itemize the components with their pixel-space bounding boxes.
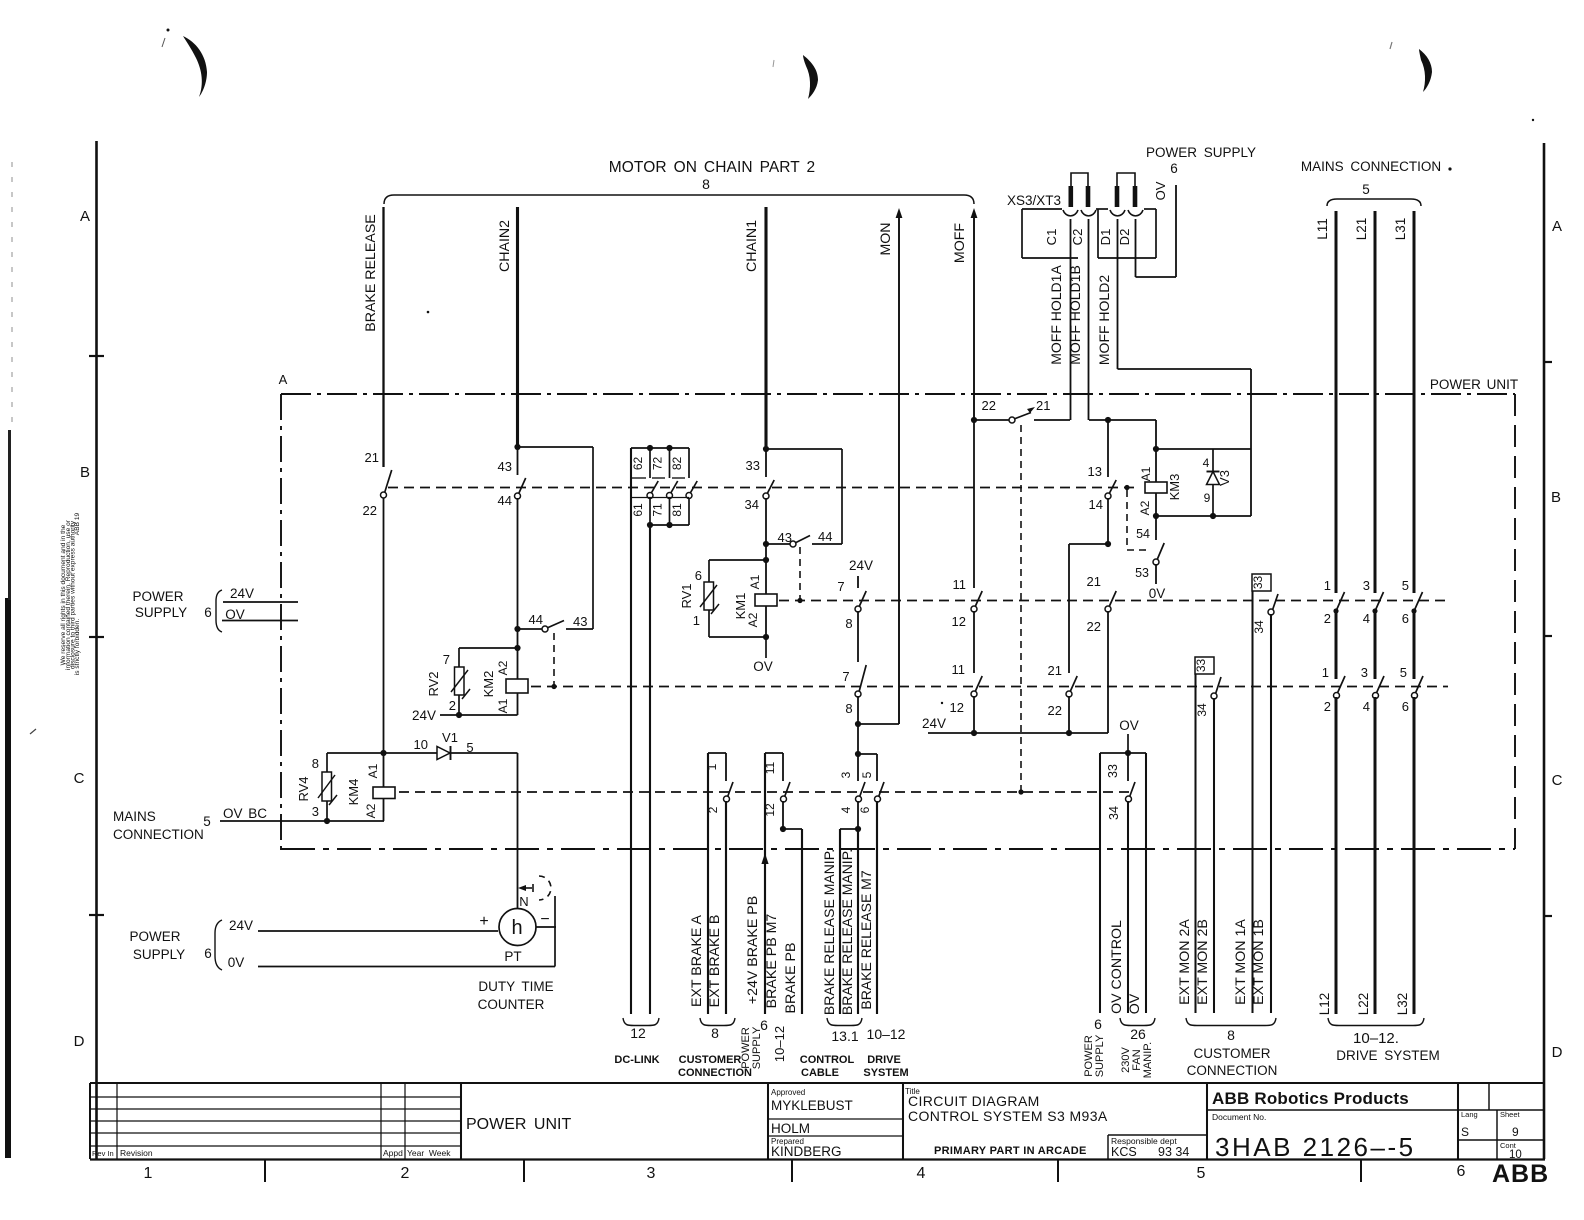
wire dc-link B xyxy=(649,525,651,1014)
svg-text:71: 71 xyxy=(651,503,665,517)
svg-text:POWER: POWER xyxy=(129,929,180,944)
svg-text:Document No.: Document No. xyxy=(1212,1112,1266,1122)
svg-text:81: 81 xyxy=(670,503,684,517)
ext mon 1 box xyxy=(1252,574,1271,591)
svg-text:EXT MON 2B: EXT MON 2B xyxy=(1195,919,1211,1005)
brace control cable xyxy=(827,1018,862,1026)
contact 22-21 moff xyxy=(974,419,1009,421)
svg-text:EXT BRAKE B: EXT BRAKE B xyxy=(707,915,723,1008)
svg-text:Approved: Approved xyxy=(771,1088,805,1097)
svg-text:12: 12 xyxy=(630,1025,646,1041)
svg-text:21: 21 xyxy=(1036,398,1050,413)
svg-text:5: 5 xyxy=(1197,1165,1206,1182)
svg-text:SUPPLY: SUPPLY xyxy=(1094,1034,1106,1077)
svg-text:V1: V1 xyxy=(442,730,458,745)
svg-text:8: 8 xyxy=(312,756,319,771)
svg-text:61: 61 xyxy=(631,503,645,517)
svg-text:43: 43 xyxy=(573,614,587,629)
svg-text:2: 2 xyxy=(449,698,456,713)
bracket mains connection xyxy=(1327,199,1421,206)
scan artifact curl 1 xyxy=(183,36,207,97)
svg-text:8: 8 xyxy=(702,176,710,192)
svg-text:ABB Robotics Products: ABB Robotics Products xyxy=(1212,1089,1409,1108)
scan artifact curl 3 xyxy=(1419,49,1432,92)
wire KM3 top xyxy=(1155,420,1157,482)
svg-text:RV1: RV1 xyxy=(679,583,694,608)
jumper link D1-D2 xyxy=(1117,173,1135,188)
svg-text:KM2: KM2 xyxy=(481,671,496,698)
svg-text:22: 22 xyxy=(982,398,996,413)
frame tick left CD xyxy=(89,914,104,916)
svg-text:MON: MON xyxy=(878,222,894,255)
svg-text:44: 44 xyxy=(818,529,832,544)
svg-text:43: 43 xyxy=(498,459,512,474)
svg-text:A1: A1 xyxy=(748,574,762,589)
ov control box top xyxy=(1100,752,1146,754)
svg-text:ABB: ABB xyxy=(1492,1160,1549,1188)
svg-text:4: 4 xyxy=(917,1165,926,1182)
svg-text:CUSTOMER: CUSTOMER xyxy=(679,1054,742,1066)
svg-text:93 34: 93 34 xyxy=(1158,1145,1189,1159)
svg-text:7: 7 xyxy=(842,669,849,684)
svg-text:+: + xyxy=(479,913,488,930)
svg-text:DRIVE SYSTEM: DRIVE SYSTEM xyxy=(1336,1048,1440,1063)
contact 5-6 xyxy=(876,754,878,781)
wire KM1 top xyxy=(709,559,766,561)
svg-text:SYSTEM: SYSTEM xyxy=(863,1067,908,1079)
brace ext mon 8 xyxy=(1186,1018,1276,1026)
svg-text:CHAIN1: CHAIN1 xyxy=(744,220,760,272)
svg-text:3: 3 xyxy=(1361,665,1368,680)
svg-text:34: 34 xyxy=(1107,806,1121,820)
contact 13-14 xyxy=(1107,420,1109,477)
svg-text:11: 11 xyxy=(953,577,967,592)
svg-text:SUPPLY: SUPPLY xyxy=(133,947,185,962)
wire dc-link A xyxy=(630,448,632,1014)
brace drive system xyxy=(1328,1018,1424,1026)
contact 33-34 ov control xyxy=(1127,753,1129,781)
svg-text:11: 11 xyxy=(952,662,966,677)
svg-text:EXT MON 1B: EXT MON 1B xyxy=(1251,919,1267,1005)
svg-text:L12: L12 xyxy=(1317,993,1332,1016)
svg-text:10–12.: 10–12. xyxy=(1353,1030,1399,1047)
column tick 4-5 xyxy=(1057,1160,1059,1182)
svg-text:24V: 24V xyxy=(849,558,873,573)
mech link 13-14 to 53-54 xyxy=(1124,485,1129,490)
wire +24V brake pb xyxy=(764,753,766,1014)
wire MOFF HOLD1B xyxy=(1088,219,1090,420)
svg-text:A: A xyxy=(1552,218,1562,235)
xs3 box xyxy=(1022,208,1062,210)
svg-text:4: 4 xyxy=(1363,611,1370,626)
svg-text:POWER: POWER xyxy=(132,589,183,604)
bracket power supply lower xyxy=(215,920,222,970)
svg-text:A1: A1 xyxy=(496,698,510,713)
svg-text:4: 4 xyxy=(1203,456,1210,470)
bracket power supply upper xyxy=(216,590,222,632)
svg-text:D2: D2 xyxy=(1117,229,1132,246)
svg-text:8: 8 xyxy=(711,1025,719,1041)
socket D1 xyxy=(1110,210,1125,216)
svg-text:POWER UNIT: POWER UNIT xyxy=(1430,377,1518,392)
svg-text:22: 22 xyxy=(363,503,377,518)
svg-text:8: 8 xyxy=(845,616,852,631)
svg-text:EXT MON 2A: EXT MON 2A xyxy=(1177,919,1193,1005)
svg-text:PRIMARY PART IN ARCADE: PRIMARY PART IN ARCADE xyxy=(934,1145,1087,1157)
frame tick right BC xyxy=(1544,635,1552,637)
wire KM2 top xyxy=(459,647,518,649)
wire 24V lower xyxy=(258,930,498,932)
wire KM2 bottom xyxy=(440,714,518,716)
svg-text:8: 8 xyxy=(1227,1027,1235,1043)
svg-text:OV: OV xyxy=(753,659,773,674)
svg-text:D: D xyxy=(74,1033,85,1050)
svg-text:10: 10 xyxy=(414,737,428,752)
node 44-43 branch xyxy=(514,626,520,632)
svg-text:D1: D1 xyxy=(1098,229,1113,246)
contact 11-12 brake pb xyxy=(782,753,784,781)
node chain2 top loop xyxy=(514,444,520,450)
svg-text:3: 3 xyxy=(839,771,853,778)
svg-text:Revision: Revision xyxy=(120,1148,153,1158)
svg-text:Appd: Appd xyxy=(383,1148,403,1158)
svg-text:KCS: KCS xyxy=(1111,1145,1137,1159)
frame tick left AB xyxy=(89,355,104,357)
contact 1-2 ext brake xyxy=(725,753,727,781)
svg-text:1: 1 xyxy=(705,763,719,770)
svg-text:Year Week: Year Week xyxy=(407,1148,451,1158)
svg-text:44: 44 xyxy=(498,493,512,508)
frame tick left BC xyxy=(89,636,104,638)
svg-text:9: 9 xyxy=(1204,491,1211,505)
svg-text:OV: OV xyxy=(1153,181,1168,200)
socket C1 xyxy=(1063,210,1078,216)
ext brake pair top xyxy=(708,752,726,754)
svg-text:CUSTOMER: CUSTOMER xyxy=(1193,1046,1270,1061)
brace 26 xyxy=(1120,1018,1155,1026)
svg-text:DUTY TIME: DUTY TIME xyxy=(478,979,553,994)
svg-text:62: 62 xyxy=(631,457,645,471)
svg-text:COUNTER: COUNTER xyxy=(478,997,545,1012)
svg-text:A1: A1 xyxy=(366,763,380,778)
svg-text:33: 33 xyxy=(1106,764,1120,778)
svg-text:C1: C1 xyxy=(1044,229,1059,246)
wire MOFF HOLD1A xyxy=(1070,219,1072,420)
svg-text:C2: C2 xyxy=(1070,229,1085,246)
responsible dept cell xyxy=(1108,1134,1207,1136)
svg-text:13: 13 xyxy=(1088,464,1102,479)
frame tick right CD xyxy=(1544,915,1552,917)
svg-text:DC-LINK: DC-LINK xyxy=(614,1054,659,1066)
dc-link label boxes xyxy=(631,477,646,479)
column tick 3-4 xyxy=(791,1160,793,1182)
svg-text:3: 3 xyxy=(312,804,319,819)
svg-text:3HAB 2126–-5: 3HAB 2126–-5 xyxy=(1215,1132,1416,1162)
svg-text:−: − xyxy=(540,911,549,928)
wire MON riser to control cable xyxy=(857,724,859,754)
node MOFF branch xyxy=(971,417,977,423)
svg-text:6: 6 xyxy=(204,605,212,620)
svg-text:12: 12 xyxy=(950,700,964,715)
svg-text:2: 2 xyxy=(401,1165,410,1182)
svg-text:22: 22 xyxy=(1048,703,1062,718)
svg-text:33: 33 xyxy=(746,458,760,473)
svg-text:V3: V3 xyxy=(1217,470,1232,486)
svg-text:2: 2 xyxy=(706,806,720,813)
brace customer connection 8 xyxy=(700,1018,735,1026)
wire MOFF HOLD2 right leg xyxy=(1250,369,1252,516)
svg-text:53: 53 xyxy=(1135,566,1149,580)
counter reset arrow xyxy=(518,885,526,891)
svg-text:21: 21 xyxy=(365,450,379,465)
node KM2 top xyxy=(514,645,520,651)
svg-text:BRAKE RELEASE: BRAKE RELEASE xyxy=(363,214,379,332)
power unit box left xyxy=(280,394,282,850)
socket D2 xyxy=(1128,210,1143,216)
svg-text:54: 54 xyxy=(1136,527,1150,541)
svg-text:MOFF HOLD1B: MOFF HOLD1B xyxy=(1067,265,1083,365)
svg-text:Sheet: Sheet xyxy=(1500,1110,1521,1119)
wire C2 corner xyxy=(1089,419,1156,421)
wire 24V upper xyxy=(223,601,298,603)
contact 53-54 xyxy=(1155,516,1157,540)
svg-text:2: 2 xyxy=(1324,699,1331,714)
svg-text:6: 6 xyxy=(1402,611,1409,626)
svg-text:CABLE: CABLE xyxy=(801,1067,839,1079)
svg-text:CONTROL: CONTROL xyxy=(800,1054,855,1066)
varistor RV4 xyxy=(327,752,384,754)
svg-text:A2: A2 xyxy=(364,803,378,818)
svg-text:1: 1 xyxy=(144,1165,153,1182)
svg-text:N: N xyxy=(519,894,528,909)
wire 0V lower xyxy=(258,966,555,968)
svg-text:D: D xyxy=(1552,1044,1563,1061)
svg-text:EXT BRAKE A: EXT BRAKE A xyxy=(689,914,705,1007)
wire MOFF HOLD2 xyxy=(1117,219,1119,369)
svg-text:S: S xyxy=(1461,1125,1469,1139)
svg-text:0V: 0V xyxy=(1149,586,1166,601)
brace dc-link xyxy=(623,1018,659,1026)
svg-text:5: 5 xyxy=(1402,578,1409,593)
svg-text:MOFF: MOFF xyxy=(952,223,968,264)
svg-text:MAINS CONNECTION: MAINS CONNECTION xyxy=(1301,159,1441,174)
svg-text:CONTROL SYSTEM S3 M93A: CONTROL SYSTEM S3 M93A xyxy=(908,1108,1108,1124)
svg-text:2: 2 xyxy=(1324,611,1331,626)
svg-text:OV CONTROL: OV CONTROL xyxy=(1109,920,1125,1014)
svg-text:L31: L31 xyxy=(1393,218,1408,241)
svg-text:6: 6 xyxy=(1170,161,1178,176)
svg-text:8: 8 xyxy=(845,701,852,716)
svg-text:SUPPLY: SUPPLY xyxy=(751,1026,763,1069)
svg-text:6: 6 xyxy=(1457,1163,1466,1180)
svg-text:6: 6 xyxy=(695,568,702,583)
frame tick right AB xyxy=(1544,361,1552,363)
wire chain1 mid xyxy=(765,498,767,560)
node chain1 top loop xyxy=(763,446,769,452)
wire D2 to 0V xyxy=(1135,219,1137,277)
lang sheet cells xyxy=(1488,1083,1490,1110)
svg-text:72: 72 xyxy=(651,457,665,471)
svg-text:33: 33 xyxy=(1251,576,1265,590)
column tick 5-6 xyxy=(1360,1160,1362,1182)
svg-text:6: 6 xyxy=(1402,699,1409,714)
svg-text:6: 6 xyxy=(1094,1016,1102,1032)
contact 81-82 xyxy=(688,448,690,478)
mech link row D xyxy=(399,791,1135,793)
mech link row A xyxy=(388,487,1135,489)
svg-text:MAINS: MAINS xyxy=(113,809,156,824)
svg-text:L21: L21 xyxy=(1354,218,1369,241)
svg-text:L11: L11 xyxy=(1315,218,1330,240)
varistor RV1 xyxy=(708,560,710,582)
svg-text:+24V BRAKE PB: +24V BRAKE PB xyxy=(745,896,761,1004)
svg-text:22: 22 xyxy=(1087,619,1101,634)
svg-text:ABB 19: ABB 19 xyxy=(74,512,81,535)
wire ov line xyxy=(1145,753,1147,1013)
svg-text:7: 7 xyxy=(837,579,844,594)
svg-text:CHAIN2: CHAIN2 xyxy=(497,220,513,272)
wire 21-22 jog xyxy=(1069,543,1108,545)
wire MOFF lower xyxy=(973,420,975,588)
svg-text:DRIVE: DRIVE xyxy=(867,1054,901,1066)
svg-text:5: 5 xyxy=(1362,182,1370,197)
mech link row C xyxy=(531,686,1448,688)
svg-text:5: 5 xyxy=(860,771,874,778)
mech link 22-21 down xyxy=(1020,425,1022,792)
svg-text:POWER UNIT: POWER UNIT xyxy=(466,1116,571,1133)
svg-text:MYKLEBUST: MYKLEBUST xyxy=(771,1098,853,1113)
svg-text:L22: L22 xyxy=(1356,993,1371,1016)
scan speck xyxy=(427,311,430,314)
svg-text:10–12: 10–12 xyxy=(772,1026,787,1062)
svg-text:1: 1 xyxy=(693,613,700,628)
frame right border xyxy=(1543,143,1546,1159)
svg-text:A2: A2 xyxy=(1138,500,1152,515)
svg-text:24V: 24V xyxy=(230,586,254,601)
svg-text:B: B xyxy=(80,464,90,481)
svg-text:4: 4 xyxy=(839,806,853,813)
svg-text:Rev In: Rev In xyxy=(92,1149,114,1158)
wire power supply 6 line xyxy=(1099,753,1101,1013)
brake pb pair top xyxy=(765,752,783,754)
svg-text:1: 1 xyxy=(1324,578,1331,593)
svg-text:PT: PT xyxy=(504,949,521,964)
svg-text:XS3/XT3: XS3/XT3 xyxy=(1007,193,1061,208)
wire 0V upper xyxy=(222,620,298,622)
svg-text:33: 33 xyxy=(1194,659,1208,673)
svg-text:BRAKE RELEASE M7: BRAKE RELEASE M7 xyxy=(858,870,874,1009)
svg-text:RV2: RV2 xyxy=(426,671,441,696)
contact 3-4 xyxy=(857,754,859,781)
svg-text:CIRCUIT DIAGRAM: CIRCUIT DIAGRAM xyxy=(908,1093,1040,1109)
dc-link bus top xyxy=(631,447,689,449)
svg-text:34: 34 xyxy=(1252,620,1266,634)
wire KM3 bottom xyxy=(1156,515,1251,517)
contact 33-34 ext mon 1 xyxy=(1273,594,1279,610)
svg-text:A2: A2 xyxy=(746,612,760,627)
svg-text:9: 9 xyxy=(1512,1125,1519,1139)
wire chain2 loop xyxy=(518,446,594,448)
svg-text:BRAKE RELEASE MANIP.: BRAKE RELEASE MANIP. xyxy=(821,849,837,1015)
revision table lines xyxy=(90,1096,461,1098)
svg-text:OV: OV xyxy=(1127,993,1143,1014)
svg-text:10–12: 10–12 xyxy=(867,1026,906,1042)
svg-text:BRAKE PB M7: BRAKE PB M7 xyxy=(764,914,780,1009)
svg-text:34: 34 xyxy=(745,497,759,512)
svg-text:B: B xyxy=(1551,489,1561,506)
svg-text:C: C xyxy=(1552,772,1563,789)
wire brake release lower xyxy=(383,498,385,753)
power unit box bottom xyxy=(281,848,1515,850)
svg-text:C: C xyxy=(74,770,85,787)
scan artifact curl 2 xyxy=(803,55,818,99)
svg-text:KM4: KM4 xyxy=(346,779,361,806)
svg-text:44: 44 xyxy=(529,612,543,627)
frame left border xyxy=(95,141,98,1159)
svg-text:6: 6 xyxy=(204,946,212,961)
contact 7-8 upper xyxy=(857,576,859,588)
svg-text:14: 14 xyxy=(1089,497,1103,512)
node brake release v1 xyxy=(380,750,386,756)
svg-text:5: 5 xyxy=(203,814,211,829)
dc-link bus bottom xyxy=(649,498,651,526)
contact 33-34 chain1 xyxy=(765,449,767,477)
wire v1 to counter xyxy=(517,753,519,908)
svg-text:12: 12 xyxy=(763,803,777,817)
contact 21-22 second row xyxy=(1068,544,1070,673)
mech link row B xyxy=(779,600,1448,602)
mech link 43-44 km1 xyxy=(799,547,801,600)
wire chain1 loop xyxy=(766,448,842,450)
svg-text:OV BC: OV BC xyxy=(223,806,267,821)
svg-text:MOFF HOLD1A: MOFF HOLD1A xyxy=(1048,265,1064,365)
svg-text:3: 3 xyxy=(1363,578,1370,593)
mech link 43-44 to KM2 xyxy=(553,633,555,686)
svg-text:26: 26 xyxy=(1130,1026,1146,1042)
svg-text:13.1: 13.1 xyxy=(831,1028,858,1044)
svg-text:L32: L32 xyxy=(1395,993,1410,1016)
contact 61-62 xyxy=(649,448,651,478)
power unit box top xyxy=(281,393,1515,395)
svg-text:3: 3 xyxy=(647,1165,656,1182)
wire brake release manip branch xyxy=(840,828,858,830)
power unit box right xyxy=(1514,394,1516,849)
svg-text:HOLM: HOLM xyxy=(771,1121,810,1136)
svg-text:21: 21 xyxy=(1087,574,1101,589)
jumper link C1-C2 xyxy=(1071,173,1088,188)
contact 71-72 xyxy=(669,448,671,478)
svg-text:CONNECTION: CONNECTION xyxy=(113,827,204,842)
svg-text:A: A xyxy=(279,372,288,387)
svg-text:BRAKE PB: BRAKE PB xyxy=(783,943,799,1014)
wire chain2 mid xyxy=(517,498,519,648)
svg-text:0V: 0V xyxy=(228,955,245,970)
contact 43-44 chain1 xyxy=(766,543,790,545)
socket C2 xyxy=(1081,210,1096,216)
ext mon 2 box xyxy=(1195,657,1214,674)
node KM1 top xyxy=(763,557,769,563)
svg-text:CONNECTION: CONNECTION xyxy=(1187,1063,1278,1078)
svg-text:MOTOR ON CHAIN PART 2: MOTOR ON CHAIN PART 2 xyxy=(609,159,815,176)
svg-text:1: 1 xyxy=(1322,665,1329,680)
svg-text:5: 5 xyxy=(1400,665,1407,680)
svg-text:OV: OV xyxy=(1119,718,1139,733)
svg-text:RV4: RV4 xyxy=(296,776,311,801)
contact 43-44 chain2 xyxy=(517,447,519,475)
svg-text:KM3: KM3 xyxy=(1167,474,1182,501)
svg-text:POWER SUPPLY: POWER SUPPLY xyxy=(1146,145,1256,160)
svg-text:82: 82 xyxy=(670,457,684,471)
